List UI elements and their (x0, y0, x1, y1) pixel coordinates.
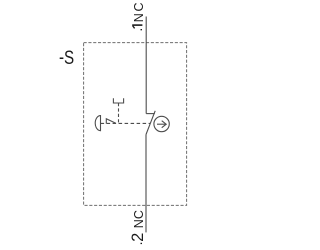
svg-text:C: C (132, 2, 146, 11)
svg-text:.: . (129, 242, 145, 246)
svg-text:S: S (64, 46, 74, 68)
label -S (59, 46, 64, 68)
digit 1 drawn as strokes (rotated): stem bar + flag (132, 24, 142, 26)
actuator linkage dashed vertical (118, 103, 120, 123)
dashed enclosure box (84, 43, 187, 206)
svg-text:.: . (129, 28, 145, 32)
terminal label .1 NC (rotated, per-glyph) (129, 2, 146, 31)
positive opening symbol arrow (157, 121, 166, 128)
wire: top terminal (145, 17, 147, 114)
svg-text:2: 2 (129, 233, 147, 242)
NC contact moving blade (146, 111, 155, 135)
svg-text:N: N (132, 13, 146, 22)
NC contact fixed seat (146, 113, 155, 115)
actuator linkage dashed horizontal (101, 122, 151, 124)
mushroom actuator head (95, 116, 100, 131)
svg-text:C: C (132, 210, 146, 219)
positive opening symbol (circle) (154, 116, 169, 131)
latching wedge (106, 119, 116, 124)
wire: bottom terminal (145, 135, 147, 233)
turn-to-release bracket (113, 98, 123, 103)
terminal label .2 NC (rotated, per-glyph) (129, 210, 147, 245)
svg-text:N: N (132, 219, 146, 228)
